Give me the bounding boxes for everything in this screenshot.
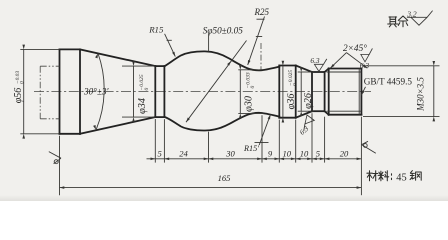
dim phi34 line (133, 66, 135, 117)
roughness 6.3 bottom symbol (299, 113, 317, 131)
svg-text:−0.03: −0.03 (15, 71, 21, 84)
label R25 arrow (246, 60, 250, 65)
svg-text:30°±3′: 30°±3′ (83, 87, 109, 97)
outline right end face (360, 69, 362, 115)
outline hump top (R15 + sphere + R25 + R15 neck) (164, 51, 279, 70)
svg-text:9: 9 (268, 149, 273, 159)
svg-text:5: 5 (316, 148, 321, 158)
outline groove top (312, 71, 325, 73)
outline cylinder-cone junction edge (79, 49, 81, 133)
ext line flange right (295, 120, 297, 163)
label R15 prime arrow (268, 114, 272, 119)
label 2x45 leader left (330, 53, 346, 69)
label 2x45 arrow left (329, 64, 334, 69)
dim M30 extension top (363, 65, 440, 67)
dim phi30 arrow top (239, 65, 242, 70)
dim phi36 arrow top (282, 61, 285, 66)
outline cone top generator (80, 49, 155, 66)
chain dim line (147, 158, 362, 160)
dim 165 line (60, 187, 362, 189)
dim M30 arrow top (433, 61, 436, 66)
dim phi26 extension bottom (298, 110, 314, 112)
outline phi56 bottom (60, 133, 81, 135)
label GBT44595 leader (361, 87, 365, 96)
outline cone end edge (154, 66, 156, 117)
svg-text:R15: R15 (148, 25, 164, 35)
dim M30 extension bottom (363, 116, 440, 118)
svg-text:24: 24 (179, 148, 188, 158)
dim 165 arrow right (357, 186, 362, 189)
note material gang (410, 171, 421, 181)
outline phi36 bottom (279, 117, 295, 119)
ext line cone end (154, 119, 156, 163)
svg-text:φ30: φ30 (243, 96, 254, 112)
centerline main axis (34, 91, 371, 93)
svg-text:φ34: φ34 (137, 98, 148, 114)
outline thread major top (329, 68, 362, 70)
svg-text:R25: R25 (254, 7, 270, 17)
svg-text:5: 5 (158, 148, 163, 158)
outline groove bottom (312, 110, 325, 112)
dim phi56 arrow bottom (22, 134, 25, 139)
svg-text:GB/T 4459.5: GB/T 4459.5 (364, 77, 413, 87)
ext line right end face (360, 117, 362, 196)
phantom mating part bottom edge (40, 118, 59, 120)
label R15 leader (165, 34, 176, 57)
svg-text:φ56: φ56 (13, 88, 24, 104)
dim phi56 label (13, 71, 26, 104)
svg-text:10: 10 (283, 148, 292, 158)
roughness 6.3 thread symbol (361, 54, 369, 61)
note material liao (378, 171, 389, 181)
dim Sphi50 line (186, 41, 247, 123)
roughness symbol right end face (362, 141, 376, 153)
outline thread start chamfer top (325, 69, 329, 73)
label R15 prime leader (259, 115, 270, 146)
dim phi36 label (286, 70, 299, 110)
chain arrow at 156 (151, 158, 156, 161)
label R25 tick mid (256, 36, 262, 38)
dim 165 arrow left (60, 186, 65, 189)
outline thread minor top (327, 71, 362, 73)
svg-text:165: 165 (218, 173, 231, 183)
phantom mating part top edge (40, 65, 59, 67)
centerline neck vertical (260, 43, 262, 70)
ext line left end face (59, 136, 61, 195)
dim phi34 extension top (122, 65, 155, 67)
label GBT44595 arrow (360, 90, 365, 95)
outline thread end chamfer edge (358, 69, 360, 115)
svg-text:30: 30 (225, 148, 235, 158)
dim phi26 extension top (298, 71, 314, 73)
svg-text:45: 45 (396, 173, 406, 184)
svg-text:−0.025: −0.025 (288, 70, 294, 86)
note material colon (391, 174, 393, 180)
dim M30 line (433, 66, 435, 117)
dim phi34 arrow top (132, 61, 135, 66)
outline flange left face (278, 66, 280, 118)
dim Sphi50 arrow upper (227, 60, 232, 65)
note roughness symbol (407, 11, 433, 26)
svg-text:M30×3.5: M30×3.5 (415, 77, 425, 112)
note material cai (367, 171, 378, 181)
svg-text:−0.033: −0.033 (245, 72, 251, 88)
dim 30deg arrow bottom (93, 125, 97, 130)
note qiyu text qi (388, 17, 398, 27)
ext line phi34 end (163, 119, 165, 162)
label R15 arrow (172, 52, 176, 57)
ext line neck (261, 115, 263, 162)
ext line groove right (324, 117, 326, 163)
svg-text:10: 10 (300, 148, 309, 158)
dim 30deg angle arc (96, 53, 104, 129)
dim phi30 arrow bottom (239, 113, 242, 118)
label 2x45 arrow right (363, 64, 368, 69)
dim Sphi50 apex extension (208, 34, 210, 52)
outline phi34/R15 edge (163, 66, 165, 117)
dim phi26 arrow top (300, 67, 303, 72)
svg-text:φ26: φ26 (303, 92, 314, 109)
dim phi26 line (300, 72, 302, 111)
dim phi34 arrow bottom (132, 117, 135, 122)
svg-text:−0.025: −0.025 (139, 74, 145, 90)
label 2x45 leader right (347, 53, 368, 69)
ext line flange left (278, 120, 280, 163)
roughness 6.3 groove symbol (314, 64, 323, 71)
outline cone bottom generator (80, 117, 155, 134)
svg-text:φ36: φ36 (286, 93, 297, 110)
outline cone slope top (phi36 to phi26) (296, 66, 312, 73)
svg-text:3.2: 3.2 (406, 10, 417, 19)
outline cone slope bottom (296, 111, 312, 118)
outline thread major bottom (329, 114, 362, 116)
outline flange right face (295, 66, 297, 118)
chain arrows (164, 158, 169, 161)
roughness 6.3 bottom text (298, 124, 310, 136)
dim phi56 extension top (20, 48, 59, 50)
dim M30 label (415, 77, 425, 112)
outline phi34 top (155, 65, 164, 67)
dim phi56 line (23, 49, 25, 133)
outline hump bottom (164, 113, 279, 131)
ext line sphere apex (208, 132, 210, 163)
phantom mating part left edge (39, 66, 41, 119)
note qiyu text yu (398, 16, 407, 27)
dim M30 arrow bottom (433, 117, 436, 122)
dim phi34 extension bottom (122, 116, 155, 118)
ext line groove left (311, 113, 313, 162)
dim phi30 label (243, 72, 256, 112)
dim phi36 line (282, 66, 284, 118)
dim phi30 extension top (238, 69, 263, 71)
outline groove left wall (311, 72, 313, 111)
svg-text:R15′: R15′ (243, 144, 259, 153)
svg-text:6.3: 6.3 (298, 124, 310, 136)
outline thread minor bottom (327, 110, 362, 112)
svg-text:6.3: 6.3 (310, 56, 320, 65)
outline thread start edge (328, 69, 330, 115)
dim phi56 arrow top (22, 45, 25, 50)
dim phi30 extension bottom (238, 112, 263, 114)
dim 30deg arrow top (95, 53, 99, 58)
outline phi56 top (60, 48, 81, 50)
outline thread start chamfer bottom (325, 111, 329, 115)
roughness symbol left end face (49, 152, 61, 164)
dim phi56 extension bottom (20, 133, 59, 135)
label R25 leader (248, 17, 265, 66)
dim Sphi50 arrow lower (185, 118, 190, 123)
outline phi34 bottom (155, 116, 164, 118)
dim phi30 line (239, 70, 241, 114)
dim phi34 label (137, 74, 150, 114)
outline left end face (59, 49, 61, 133)
svg-text:2×45°: 2×45° (343, 43, 367, 54)
dim phi26 label (303, 92, 314, 109)
outline phi36 top (279, 65, 295, 67)
svg-text:20: 20 (340, 148, 349, 158)
outline groove right wall (324, 72, 326, 111)
dim phi36 arrow bottom (282, 118, 285, 123)
label R25 tick top (257, 18, 265, 20)
dim phi26 arrow bottom (300, 111, 303, 116)
